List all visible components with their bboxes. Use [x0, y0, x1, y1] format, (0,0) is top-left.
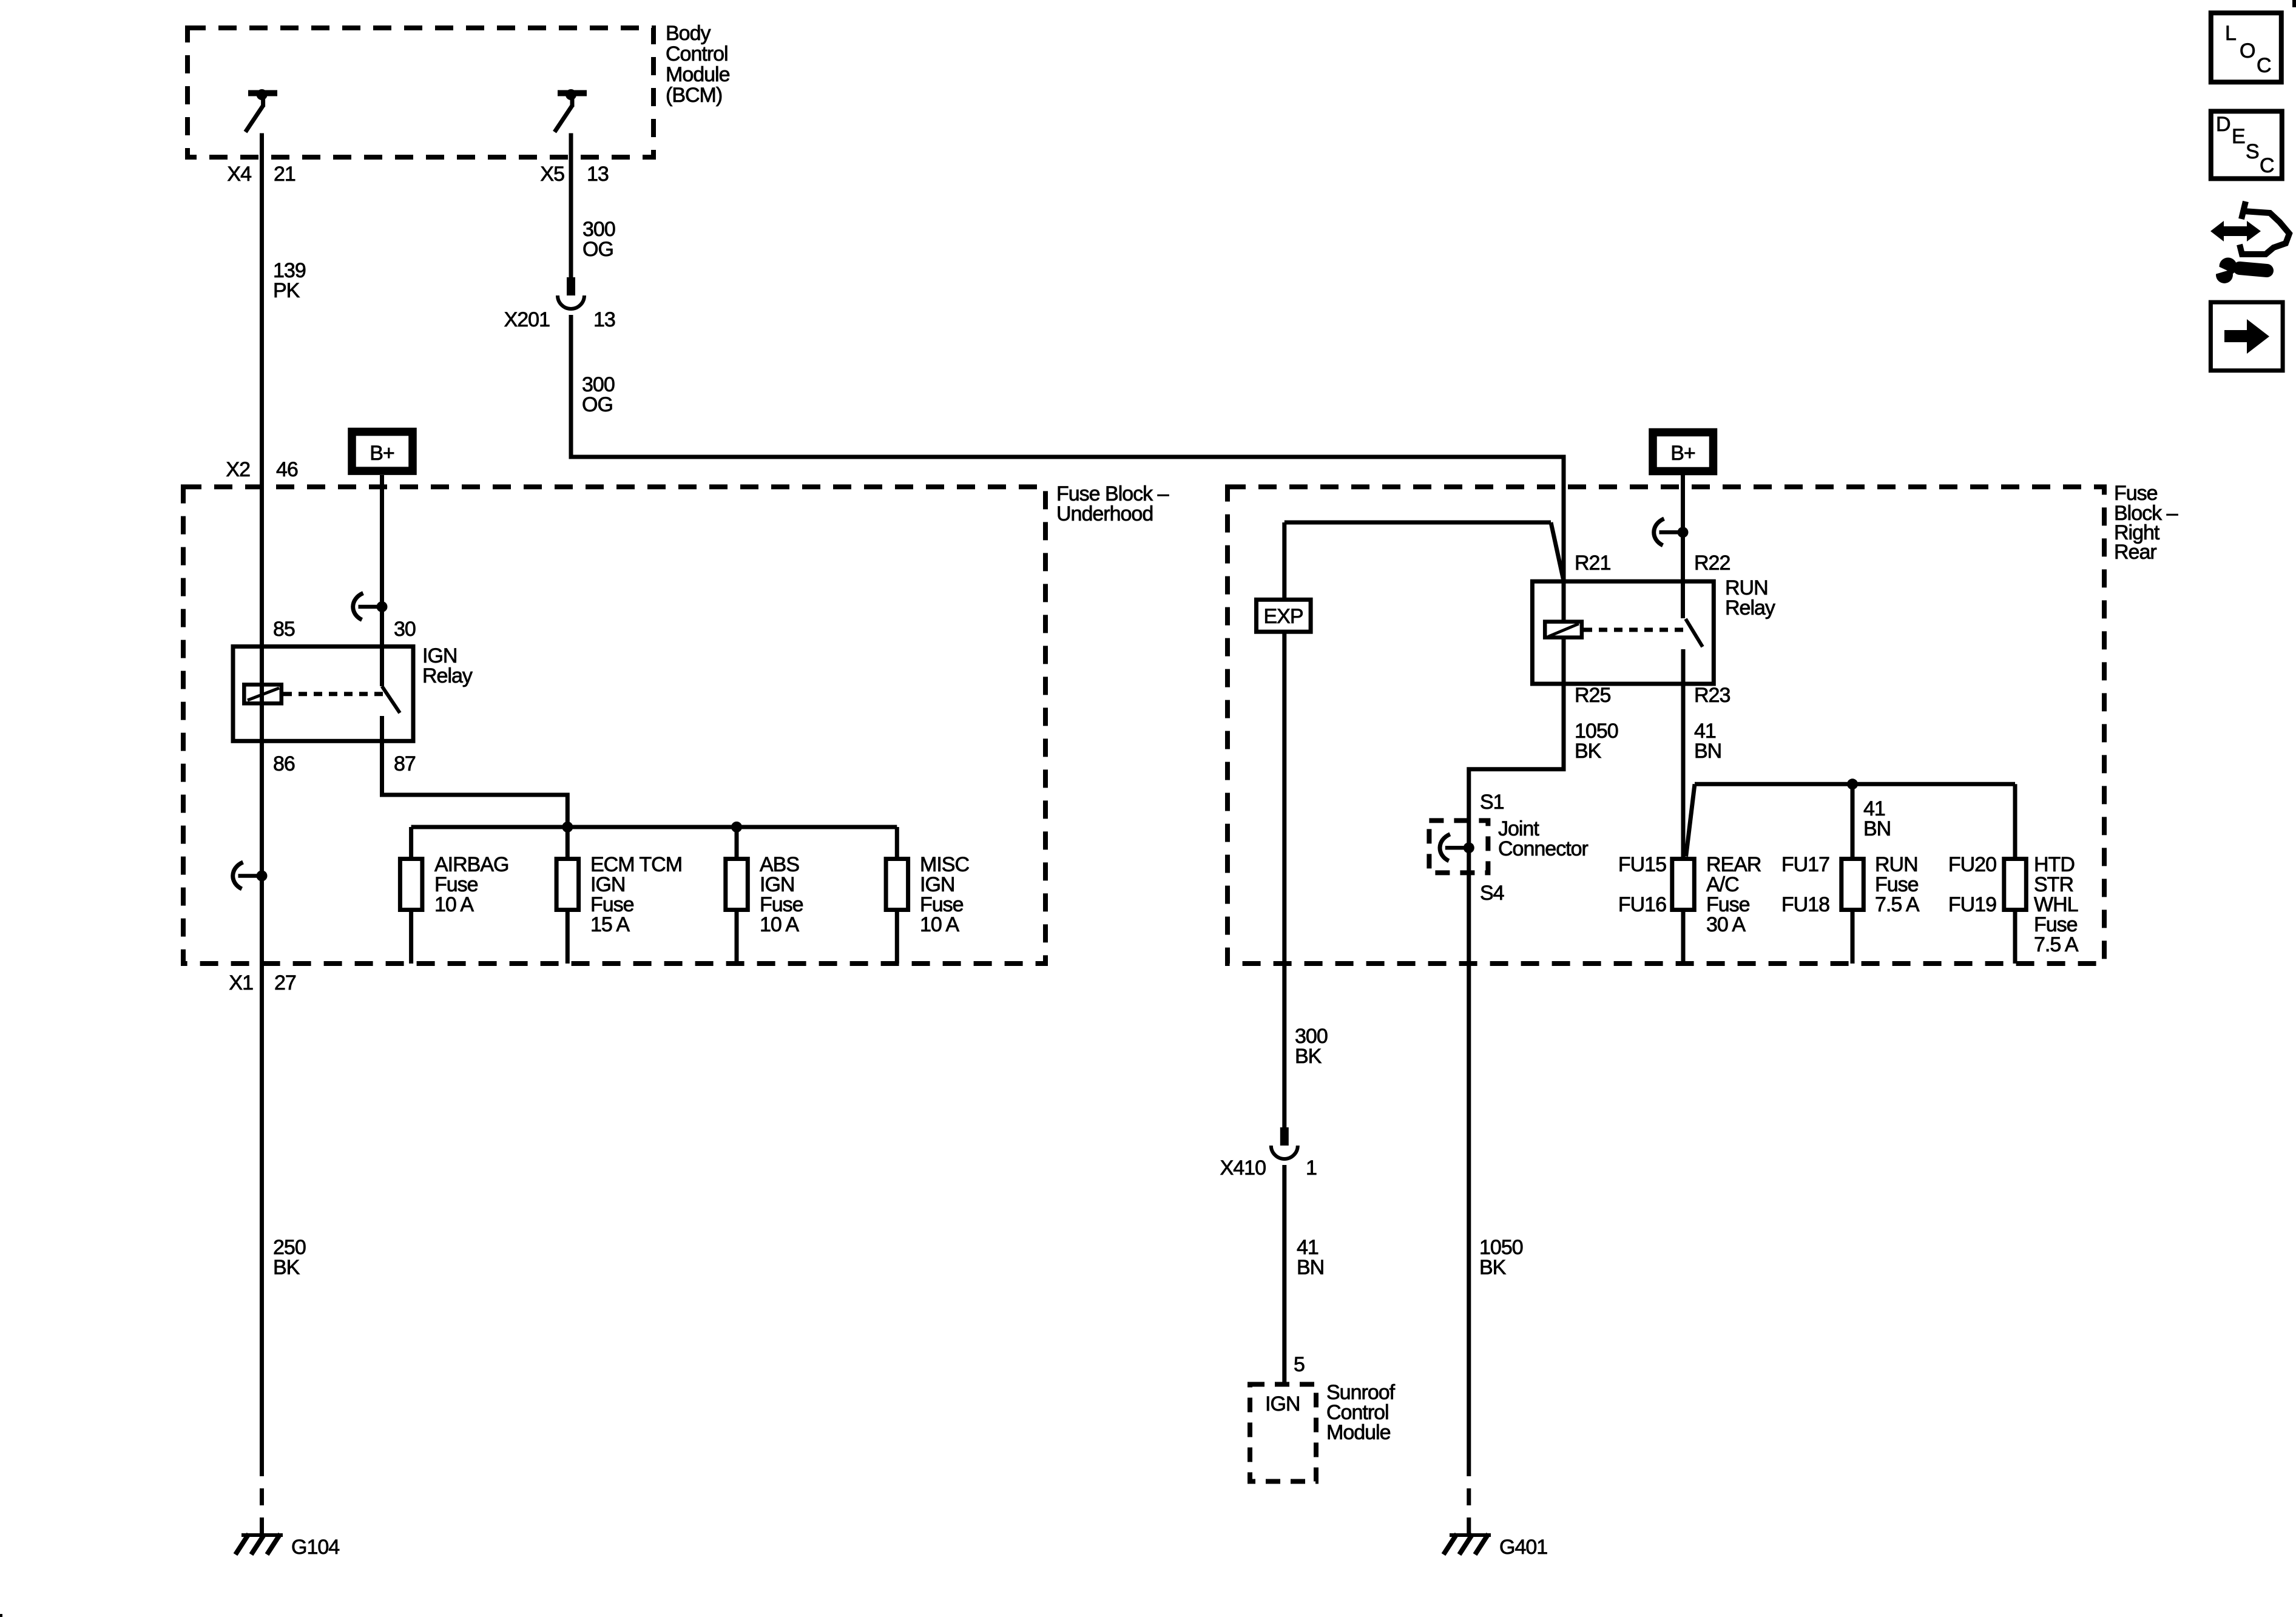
diagnostic icon (double arrow, body panel, wrench) [2210, 201, 2289, 283]
svg-text:10 A: 10 A [760, 913, 799, 936]
RUN relay box [1532, 576, 1775, 684]
svg-text:PK: PK [273, 279, 300, 302]
svg-text:X5: X5 [540, 163, 564, 186]
connector labels X201 | 13 [504, 308, 615, 331]
DESC reference box [2211, 111, 2282, 178]
svg-text:13: 13 [593, 308, 615, 331]
svg-text:46: 46 [276, 458, 298, 481]
LOC reference box [2211, 13, 2281, 82]
svg-text:13: 13 [587, 163, 609, 186]
svg-text:X4: X4 [227, 163, 251, 186]
svg-text:EXP: EXP [1263, 605, 1303, 628]
svg-text:30 A: 30 A [1706, 913, 1746, 936]
svg-text:D: D [2216, 113, 2230, 136]
IGN relay linkage (dashed) [283, 692, 384, 696]
component box: Fuse Block - Right Rear [1227, 482, 2178, 964]
svg-text:7.5 A: 7.5 A [2034, 933, 2079, 956]
svg-text:X201: X201 [504, 308, 550, 331]
svg-text:FU15: FU15 [1618, 853, 1666, 876]
wire 41 BN from X410 to sunroof control module [1282, 1165, 1286, 1384]
wire from R25 down and left to joint connector S1 [1469, 684, 1564, 1459]
svg-text:X410: X410 [1220, 1156, 1266, 1180]
svg-text:X1: X1 [229, 971, 253, 994]
wire label 41 BN (bus) [1863, 797, 1891, 840]
wire label 139 PK [273, 259, 306, 302]
wire label 300 OG (lower) [582, 373, 615, 416]
fuse AIRBAG Fuse 10 A [400, 827, 508, 964]
fuse FU17/FU18 RUN Fuse 7.5 A [1781, 784, 1920, 964]
label S1 [1480, 791, 1504, 814]
clip symbol with junction on pin-30 wire [353, 593, 388, 620]
fuse FU20/FU19 HTD STR WHL Fuse 7.5 A [1948, 784, 2079, 964]
svg-text:FU16: FU16 [1618, 893, 1666, 916]
svg-text:30: 30 [394, 618, 416, 641]
svg-text:OG: OG [582, 393, 613, 416]
svg-text:C: C [2257, 54, 2271, 77]
svg-text:G401: G401 [1499, 1536, 1547, 1559]
relay pin labels R21 | R22 [1575, 552, 1730, 575]
svg-text:Module: Module [1326, 1421, 1391, 1444]
relay coil pin labels 85 | 30 [273, 618, 416, 641]
fuse FU15/FU16 REAR A/C Fuse 30 A [1618, 853, 1761, 964]
svg-text:27: 27 [274, 971, 296, 994]
fuse MISC IGN Fuse 10 A [886, 827, 969, 964]
switch in BCM, output X4-21 [246, 89, 278, 132]
svg-text:Underhood: Underhood [1056, 502, 1153, 525]
RUN relay linkage (dashed) [1584, 628, 1685, 632]
fuse ABS IGN Fuse 10 A [726, 827, 803, 964]
svg-text:BK: BK [273, 1256, 300, 1279]
ground G104 [235, 1534, 339, 1559]
wire label 41 BN [1297, 1236, 1324, 1279]
wire 300 BK from EXP down to X410 [1282, 632, 1286, 1127]
svg-text:87: 87 [394, 752, 416, 775]
EXP terminal box [1257, 599, 1311, 632]
wire label 300 BK [1295, 1025, 1328, 1068]
svg-text:Module: Module [666, 63, 730, 86]
module box: Body Control Module (BCM) [187, 22, 730, 157]
svg-text:BK: BK [1575, 740, 1602, 763]
svg-text:15 A: 15 A [590, 913, 630, 936]
component box: Fuse Block - Underhood [183, 482, 1169, 964]
RUN relay coil pins R21/R25 [1562, 581, 1566, 684]
wire label 1050 BK (to G401) [1479, 1236, 1523, 1279]
svg-text:1: 1 [1306, 1156, 1317, 1180]
svg-text:86: 86 [273, 752, 295, 775]
ground G401 [1443, 1534, 1547, 1559]
wire from EXP up and over to RUN relay R21 node [1285, 522, 1564, 599]
switch in BCM, output X5-13 [555, 89, 587, 132]
svg-text:FU18: FU18 [1781, 893, 1829, 916]
svg-text:Rear: Rear [2114, 541, 2156, 564]
svg-text:R21: R21 [1575, 552, 1610, 575]
svg-text:Relay: Relay [1725, 596, 1775, 619]
GO-TO arrow box [2210, 302, 2283, 371]
svg-text:C: C [2260, 154, 2274, 177]
svg-text:10 A: 10 A [920, 913, 959, 936]
svg-text:FU17: FU17 [1781, 853, 1829, 876]
dashed wire end above G401 [1467, 1459, 1471, 1534]
svg-text:FU19: FU19 [1948, 893, 1996, 916]
wire R23 down to REAR A/C fuse [1681, 684, 1686, 859]
wire from left B+ to IGN relay pin 30 [380, 475, 384, 646]
relay pin labels R25 | R23 [1575, 684, 1730, 707]
svg-text:Relay: Relay [422, 664, 473, 687]
inline connector X201 pin 13 [558, 277, 584, 309]
svg-text:21: 21 [274, 163, 295, 186]
clip symbol with junction on R22 wire [1654, 519, 1689, 545]
RUN relay coil [1545, 622, 1582, 638]
wire from right B+ to RUN relay R22 [1681, 475, 1685, 581]
svg-text:Connector: Connector [1498, 837, 1589, 860]
pin labels X5 | 13 [540, 163, 609, 186]
svg-text:BK: BK [1295, 1045, 1322, 1068]
B+ terminal (left, fuse block underhood) [352, 432, 413, 471]
wire label 300 OG (upper) [582, 218, 615, 261]
clip symbol with junction on left wire above X1-27 [233, 862, 268, 889]
svg-text:10 A: 10 A [434, 893, 474, 916]
svg-text:BN: BN [1694, 740, 1721, 763]
svg-text:Control: Control [666, 42, 728, 66]
svg-text:85: 85 [273, 618, 295, 641]
svg-text:BN: BN [1863, 817, 1891, 840]
svg-text:Body: Body [666, 22, 711, 45]
svg-text:(BCM): (BCM) [666, 84, 722, 107]
inline connector X410 pin 1 [1271, 1127, 1298, 1159]
module box: Sunroof Control Module (IGN input) [1250, 1381, 1396, 1482]
pin labels X1 | 27 [229, 971, 296, 994]
IGN relay coil [244, 684, 282, 703]
relay pin labels 86 | 87 [273, 752, 416, 775]
svg-text:G104: G104 [291, 1536, 339, 1559]
svg-text:R25: R25 [1575, 684, 1610, 707]
svg-text:L: L [2225, 22, 2236, 45]
wire 139 PK: BCM X4-21 down to fuse block X2-46 and on (circuit 250 BK below) [260, 133, 264, 1535]
svg-text:5: 5 [1294, 1353, 1305, 1376]
svg-text:S4: S4 [1480, 882, 1504, 905]
svg-text:R23: R23 [1694, 684, 1730, 707]
left fuse supply bus [411, 822, 897, 832]
svg-text:B+: B+ [1670, 442, 1695, 465]
fuse ECM TCM IGN Fuse 15 A [556, 827, 682, 964]
page corner mark (bottom left) [0, 1614, 2, 1617]
connector labels X410 | 1 [1220, 1156, 1317, 1180]
svg-text:E: E [2232, 125, 2245, 148]
B+ terminal (right, fuse block right rear) [1653, 433, 1714, 471]
wire 86 continues down left wire (already drawn) ; wire from pin 87 to fuse bus [382, 741, 568, 827]
label S4 [1480, 882, 1504, 905]
svg-text:7.5 A: 7.5 A [1875, 893, 1920, 916]
svg-text:OG: OG [582, 238, 613, 261]
wire 300 OG run from X201 to RUN relay R21 [569, 315, 1564, 581]
pin labels X4 | 21 [227, 163, 295, 186]
svg-text:BN: BN [1297, 1256, 1324, 1279]
pin label 5 [1294, 1353, 1305, 1376]
svg-text:IGN: IGN [1265, 1393, 1300, 1416]
svg-text:BK: BK [1479, 1256, 1507, 1279]
svg-text:O: O [2240, 39, 2255, 62]
svg-text:X2: X2 [226, 458, 250, 481]
svg-text:FU20: FU20 [1948, 853, 1996, 876]
IGN relay wires through coil (pins 85/86) [260, 646, 264, 741]
pin labels X2 | 46 [226, 458, 298, 481]
IGN relay box [233, 644, 473, 741]
wire label 1050 BK (relay R25) [1575, 720, 1618, 763]
clip symbol with junction inside joint connector [1440, 834, 1474, 861]
right fuse supply bus 41 BN [1686, 778, 2015, 856]
RUN relay switch contact pins R22/R23 [1683, 581, 1703, 684]
wire label 250 BK [273, 1236, 306, 1279]
IGN relay switch contact pins 30/87 [382, 646, 400, 741]
svg-text:R22: R22 [1694, 552, 1730, 575]
wire label 41 BN (relay R23) [1694, 720, 1721, 763]
wire 300 OG: BCM X5-13 down to connector X201 [569, 133, 573, 278]
svg-text:S1: S1 [1480, 791, 1504, 814]
joint connector box (dashed) [1429, 817, 1588, 873]
page corner mark (top right) [2292, 0, 2296, 7]
svg-text:S: S [2246, 140, 2259, 163]
svg-text:B+: B+ [370, 442, 394, 465]
